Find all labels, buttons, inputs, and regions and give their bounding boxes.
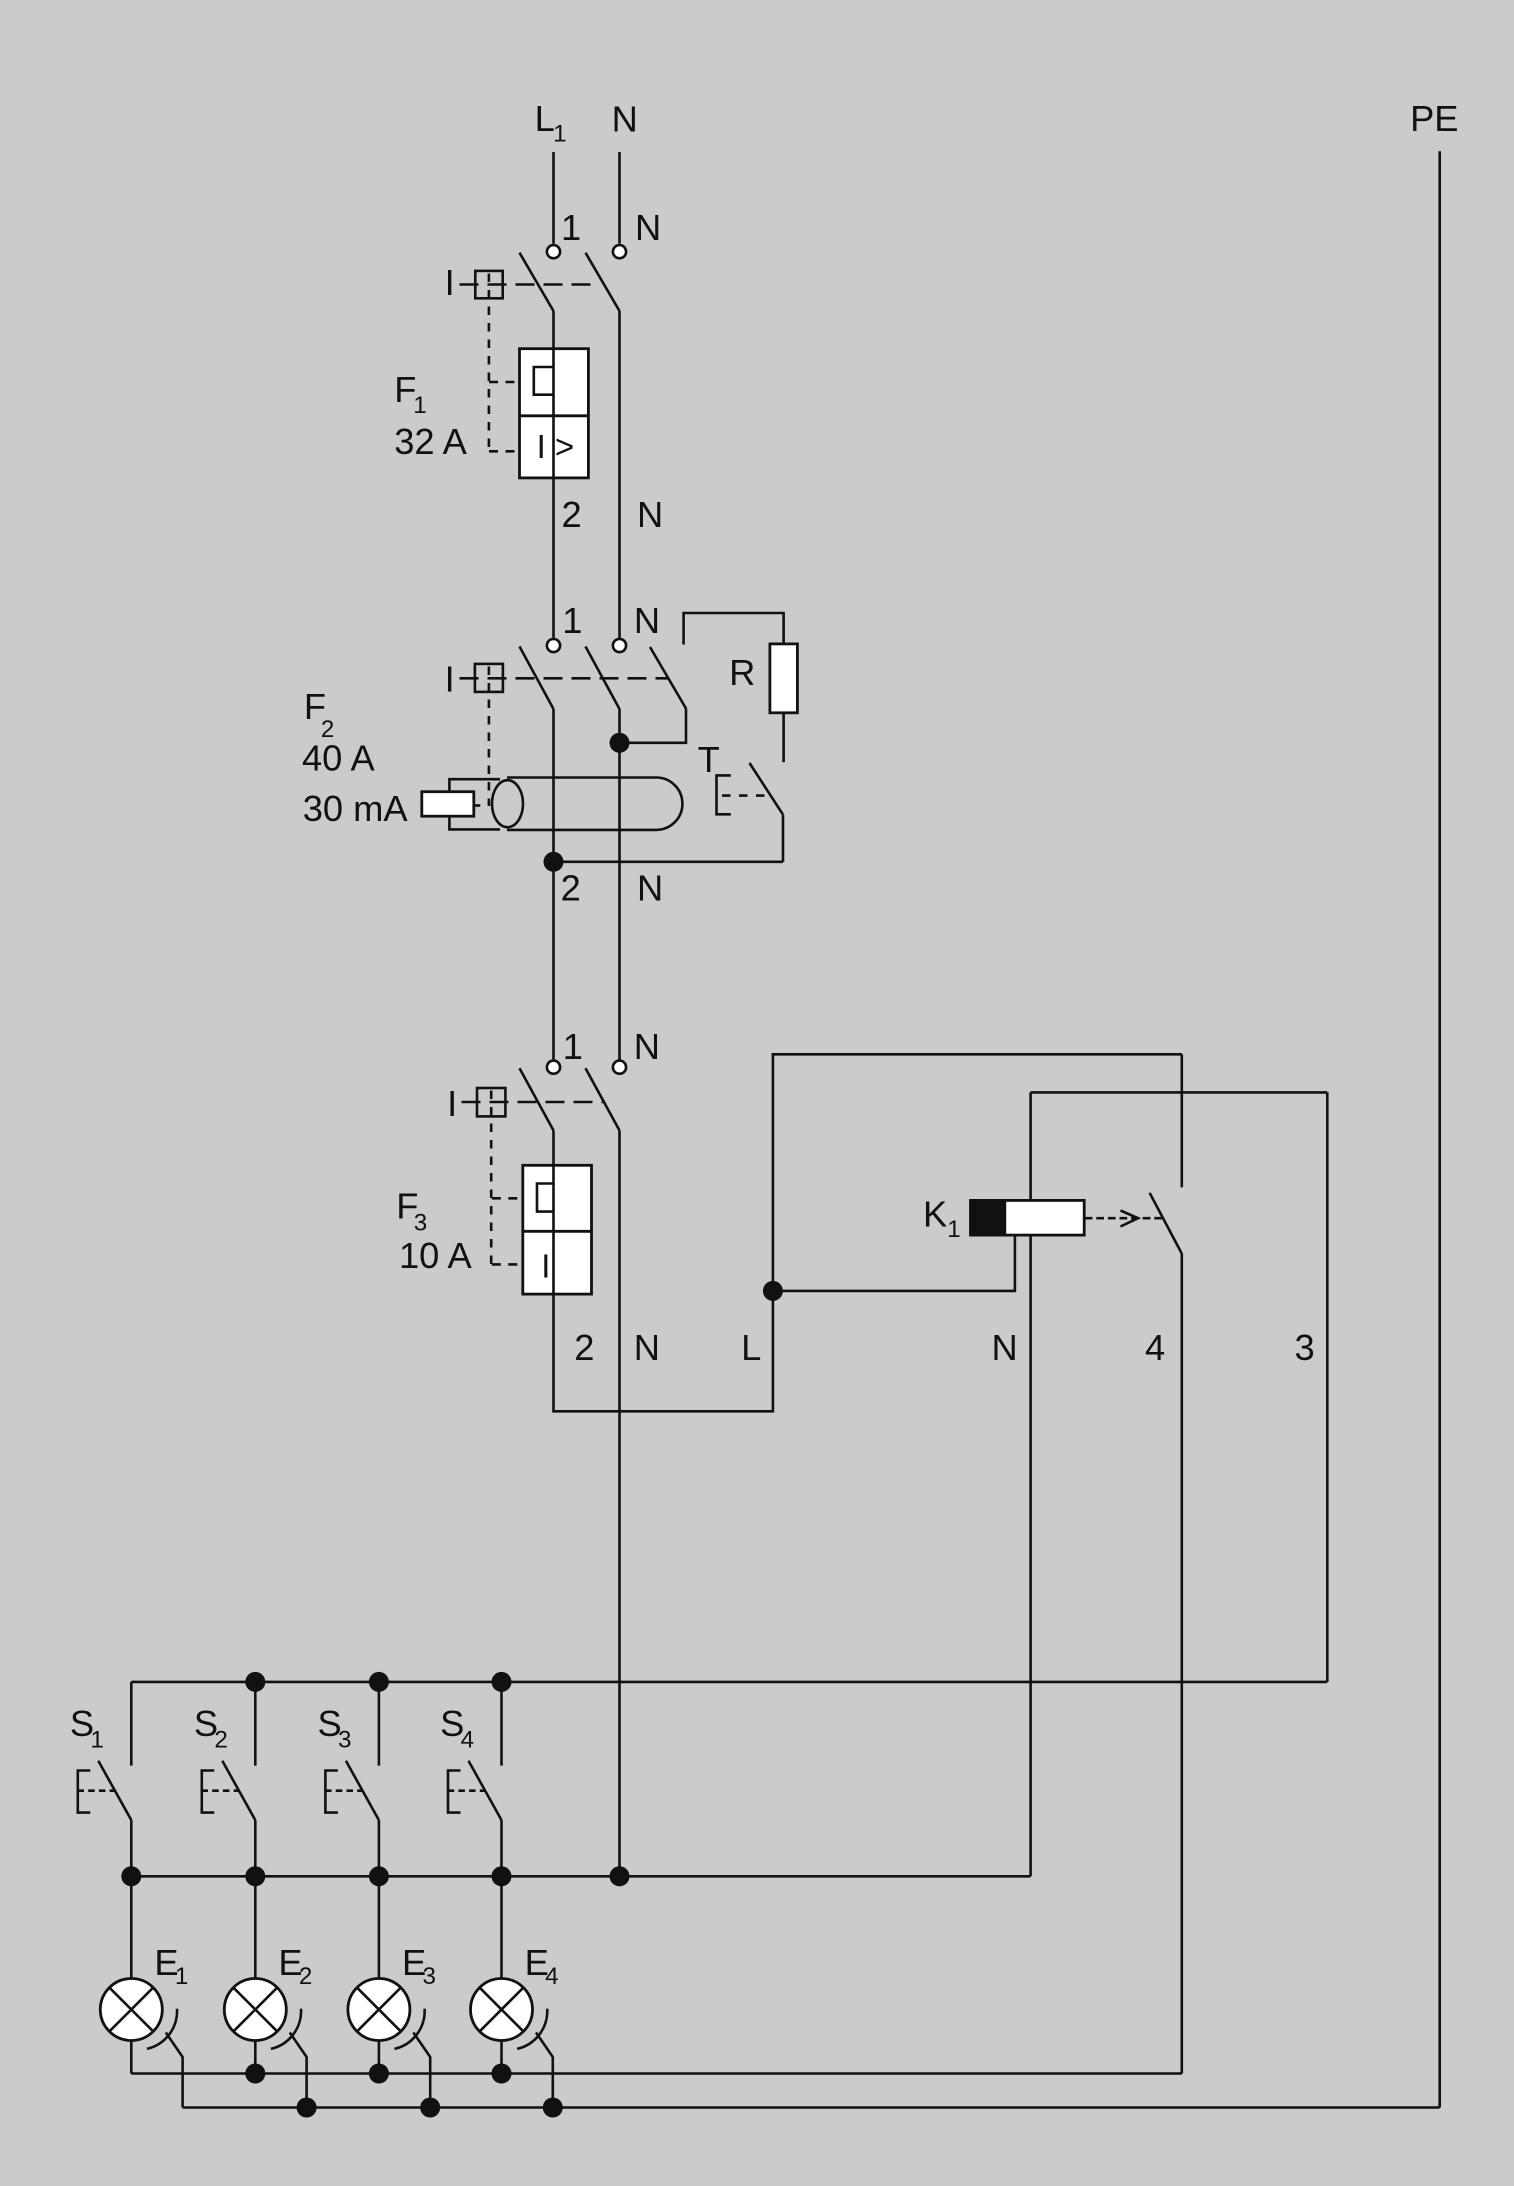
lamp E2 [224, 1979, 286, 2041]
lamp return bus to contact 4 [131, 2072, 1182, 2075]
wire N through F2 [618, 709, 621, 1060]
wire test button down [782, 815, 785, 862]
lamp E4 housing arc [517, 2009, 547, 2049]
lamp E3 cross [357, 1988, 401, 2032]
pushbutton S4 dashed actuator link [448, 1789, 485, 1792]
lamp E3 [348, 1979, 410, 2041]
RCD F2 N pole contact blade [586, 647, 620, 710]
test button T bracket [717, 775, 731, 814]
svg-text:I: I [445, 262, 455, 303]
pushbutton S3 feed wire [378, 1682, 381, 1766]
breaker F3 trip linkage dashed vertical [490, 1091, 493, 1265]
test resistor R [770, 644, 798, 713]
svg-text:3: 3 [338, 1727, 351, 1754]
pushbutton S4 contact blade [469, 1761, 502, 1820]
svg-text:40 A: 40 A [302, 737, 375, 778]
pushbutton S1 contact blade [98, 1761, 131, 1820]
lamp E2 cross [233, 1988, 277, 2032]
breaker F1 thermal release notch [534, 367, 554, 395]
svg-text:PE: PE [1410, 98, 1458, 139]
svg-text:1: 1 [563, 1026, 583, 1067]
svg-text:2: 2 [574, 1327, 594, 1368]
pushbutton S3 bracket [325, 1771, 338, 1813]
svg-text:3: 3 [423, 1963, 436, 1990]
wire L from F3 to relay riser [554, 1054, 1182, 1411]
RCD F2 trip linkage dashed vertical [488, 667, 491, 807]
wire N through F1 stage [618, 311, 621, 638]
wire node 3 down to pushbutton bus [1326, 1092, 1329, 1682]
svg-text:I: I [541, 1248, 550, 1285]
svg-text:30 mA: 30 mA [303, 788, 409, 829]
wire L1 feeder [552, 152, 555, 244]
junction pushbutton bus S3 [369, 1672, 389, 1692]
RCD F2 L pole terminal [547, 639, 560, 652]
svg-text:I: I [445, 658, 455, 699]
junction neutral bus column 1 [121, 1866, 141, 1886]
lamp E4 protective earth tail [536, 2033, 553, 2108]
svg-text:R: R [729, 652, 755, 693]
junction lamp return bus E2 [245, 2064, 265, 2084]
svg-text:2: 2 [561, 867, 581, 908]
svg-text:2: 2 [562, 494, 582, 535]
test button T dashed actuator link [722, 794, 766, 797]
svg-text:N: N [992, 1327, 1018, 1368]
breaker F3 L pole contact blade [520, 1068, 554, 1130]
pushbutton S4 bracket [448, 1771, 461, 1813]
breaker F3 body box [523, 1165, 592, 1294]
wire S1 to neutral bus and lamp E1 [130, 1820, 133, 1978]
breaker F1 L pole terminal [547, 245, 560, 258]
svg-text:L: L [535, 98, 555, 139]
lamp E2 housing arc [271, 2009, 301, 2049]
junction N test pole [610, 733, 630, 753]
junction neutral bus F3 N feed [610, 1866, 630, 1886]
lamp E2 protective earth tail [290, 2033, 307, 2108]
wire N below coil down to switch bus [1029, 1235, 1032, 1876]
breaker F3 magnetic trip dashed stub [492, 1263, 519, 1266]
svg-text:K: K [923, 1193, 947, 1234]
test button T contact blade [750, 763, 784, 815]
svg-text:4: 4 [461, 1727, 474, 1754]
svg-text:1: 1 [90, 1727, 103, 1754]
pushbutton supply bus from node 3 [131, 1681, 1327, 1684]
lamp E3 housing arc [395, 2009, 425, 2049]
junction lamp return bus E3 [369, 2064, 389, 2084]
breaker F3 N pole contact blade [586, 1068, 620, 1130]
protective earth bus PE [183, 2106, 1440, 2109]
RCD trip coil dashed stub [474, 804, 480, 807]
wire L through F2 [552, 709, 555, 1060]
RCD F2 test pole contact blade [650, 647, 686, 709]
wire S3 to neutral bus and lamp E3 [378, 1820, 381, 1978]
relay K1 contact fixed stub [1181, 1054, 1184, 1187]
breaker F1 section divider [520, 414, 589, 417]
breaker F3 pole coupling dashed link [462, 1101, 606, 1104]
breaker F1 trip linkage dashed vertical [488, 274, 491, 452]
wire contact 4 down to lamp return bus [1181, 1254, 1184, 2074]
svg-text:1: 1 [175, 1963, 188, 1990]
svg-text:1: 1 [947, 1216, 960, 1243]
RCD F2 pole coupling dashed link [460, 677, 669, 680]
breaker F3 L pole terminal [547, 1061, 560, 1074]
wire L through F1 [552, 311, 555, 638]
junction neutral bus column 2 [245, 1866, 265, 1886]
lamp E4 return wire [500, 2041, 503, 2074]
wire S4 to neutral bus and lamp E4 [500, 1820, 503, 1978]
svg-text:N: N [634, 1026, 660, 1067]
svg-text:10 A: 10 A [399, 1235, 472, 1276]
current transformer secondary wrap [449, 779, 500, 829]
RCD F2 L pole contact blade [520, 647, 554, 710]
pushbutton S4 feed wire [500, 1682, 503, 1766]
svg-text:N: N [612, 99, 638, 140]
breaker F1 body box [520, 349, 589, 478]
svg-text:I >: I > [537, 428, 575, 465]
svg-text:4: 4 [1145, 1327, 1165, 1368]
pushbutton S1 dashed actuator link [78, 1789, 115, 1792]
RCD F2 test pole upper bar [684, 613, 784, 645]
breaker F1 magnetic trip dashed stub [489, 450, 516, 453]
wire R to test button [782, 713, 785, 762]
lamp E2 return wire [254, 2041, 257, 2074]
svg-text:1: 1 [562, 600, 582, 641]
RCD trip coil box [422, 792, 474, 817]
wire N feeder [618, 152, 621, 244]
svg-text:L: L [741, 1327, 761, 1368]
wire N through F3 stage down to lamp bus [618, 1131, 621, 1877]
pushbutton S1 feed wire [130, 1682, 133, 1766]
junction L test circuit [544, 852, 564, 872]
svg-text:N: N [637, 494, 663, 535]
breaker F1 N pole contact blade [586, 253, 620, 311]
RCD F2 actuator box [475, 664, 503, 692]
lamp E1 cross [109, 1988, 153, 2032]
junction neutral bus column 3 [369, 1866, 389, 1886]
lamp E4 cross [480, 1988, 524, 2032]
pushbutton S2 feed wire [254, 1682, 257, 1766]
breaker F1 pole coupling dashed link [460, 283, 596, 286]
svg-text:N: N [634, 1327, 660, 1368]
svg-text:N: N [634, 600, 660, 641]
svg-text:3: 3 [414, 1210, 427, 1237]
pushbutton S2 dashed actuator link [202, 1789, 239, 1792]
RCD F2 N pole terminal [613, 639, 626, 652]
svg-text:1: 1 [413, 392, 426, 419]
pushbutton S2 contact blade [222, 1761, 255, 1820]
pushbutton S3 dashed actuator link [325, 1789, 362, 1792]
breaker F3 section divider [523, 1230, 592, 1233]
lamp E1 return wire [130, 2041, 133, 2074]
relay K1 contact blade [1150, 1193, 1182, 1254]
breaker F3 N pole terminal [613, 1061, 626, 1074]
wire coil top bar to node 3 [1031, 1091, 1328, 1094]
breaker F3 thermal release notch [537, 1184, 554, 1212]
svg-text:1: 1 [553, 121, 566, 148]
wire test circuit return [554, 860, 784, 863]
lamp E1 protective earth tail [166, 2033, 183, 2108]
lamp E3 protective earth tail [413, 2033, 430, 2108]
relay K1 arrow head [1121, 1211, 1139, 1227]
pushbutton S2 bracket [202, 1771, 215, 1813]
pushbutton S3 contact blade [346, 1761, 379, 1820]
svg-text:T: T [698, 739, 720, 780]
svg-text:2: 2 [299, 1963, 312, 1990]
current transformer toroid body [507, 778, 682, 830]
breaker F3 thermal trip dashed stub [492, 1197, 518, 1200]
lamp E4 [471, 1979, 533, 2041]
breaker F1 thermal trip dashed stub [489, 381, 515, 384]
junction PE bus E2 [297, 2098, 317, 2118]
relay K1 coil black segment [971, 1200, 1006, 1235]
lamp E1 [100, 1979, 162, 2041]
pushbutton S1 bracket [78, 1771, 91, 1813]
junction pushbutton bus S4 [492, 1672, 512, 1692]
wire S2 to neutral bus and lamp E2 [254, 1820, 257, 1978]
breaker F1 L pole contact blade [520, 253, 554, 311]
svg-text:N: N [637, 867, 663, 908]
svg-text:3: 3 [1295, 1327, 1315, 1368]
junction PE bus E4 [543, 2098, 563, 2118]
junction PE bus E3 [420, 2098, 440, 2118]
junction lamp return bus E4 [492, 2064, 512, 2084]
junction pushbutton bus S2 [245, 1672, 265, 1692]
wire bar down to coil [1029, 1092, 1032, 1200]
junction L coil feed [763, 1281, 783, 1301]
svg-text:1: 1 [561, 207, 581, 248]
svg-text:4: 4 [545, 1963, 558, 1990]
wire L through F3 [552, 1131, 555, 1166]
svg-text:N: N [635, 207, 661, 248]
relay K1 coil body [971, 1200, 1085, 1235]
wire PE down right side [1438, 151, 1441, 2107]
breaker F1 actuator box [475, 271, 502, 298]
relay K1 dashed actuating arrow [1085, 1217, 1163, 1220]
breaker F3 actuator box [477, 1088, 505, 1116]
wire test pole to N junction [620, 709, 687, 743]
svg-text:2: 2 [214, 1727, 227, 1754]
neutral bus N [131, 1875, 1030, 1878]
lamp E3 return wire [378, 2041, 381, 2074]
wire coil bottom lead to L junction [773, 1235, 1015, 1291]
junction neutral bus column 4 [492, 1866, 512, 1886]
breaker F1 N pole terminal [613, 245, 626, 258]
current transformer toroid end face [492, 780, 523, 827]
lamp E1 housing arc [147, 2009, 177, 2049]
svg-text:32 A: 32 A [394, 421, 467, 462]
svg-text:I: I [447, 1083, 457, 1124]
